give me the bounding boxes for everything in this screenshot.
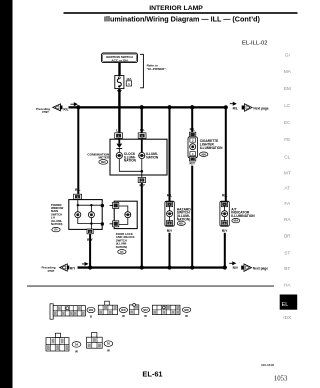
svg-text:R/L: R/L — [190, 127, 195, 131]
svg-text:D6: D6 — [75, 345, 79, 347]
svg-text:D5: D5 — [107, 344, 111, 346]
svg-text:R/L: R/L — [233, 106, 238, 110]
svg-text:RA: RA — [284, 217, 291, 223]
svg-text:R/L: R/L — [75, 188, 80, 192]
svg-text:Next page: Next page — [253, 266, 268, 270]
svg-text:M57: M57 — [143, 310, 148, 312]
svg-text:R/Y: R/Y — [233, 266, 239, 270]
svg-text:NATION): NATION) — [51, 222, 63, 226]
svg-text:R/Y: R/Y — [222, 229, 228, 233]
svg-text:MA: MA — [284, 69, 292, 75]
svg-text:CL: CL — [284, 154, 290, 160]
svg-text:page: page — [42, 110, 49, 114]
svg-text:R/L: R/L — [63, 107, 68, 111]
svg-text:R/L: R/L — [167, 194, 172, 198]
svg-text:ILLUMINATION: ILLUMINATION — [200, 146, 223, 150]
svg-text:BR: BR — [284, 234, 291, 240]
svg-text:EC: EC — [284, 120, 291, 126]
svg-text:IDX: IDX — [283, 315, 292, 321]
svg-text:R/L: R/L — [222, 194, 227, 198]
svg-text:M29: M29 — [89, 310, 94, 312]
svg-text:INTERIOR LAMP: INTERIOR LAMP — [149, 5, 203, 12]
svg-text:M56: M56 — [201, 154, 206, 156]
svg-text:W: W — [75, 349, 78, 353]
svg-text:Next page: Next page — [253, 106, 268, 110]
svg-text:W: W — [185, 314, 188, 318]
svg-text:R/Y: R/Y — [167, 229, 173, 233]
svg-text:NATION: NATION — [124, 159, 137, 163]
svg-text:ILLUMINATION: ILLUMINATION — [231, 214, 255, 218]
svg-text:10A: 10A — [126, 77, 132, 81]
svg-text:R/Y: R/Y — [190, 161, 196, 165]
svg-text:ACC or ON: ACC or ON — [111, 59, 128, 63]
svg-text:B: B — [90, 315, 93, 319]
svg-text:M45: M45 — [121, 309, 126, 312]
svg-text:M51: M51 — [179, 223, 184, 225]
svg-text:LC: LC — [284, 103, 291, 109]
svg-text:FE: FE — [284, 137, 290, 143]
svg-text:ST: ST — [284, 250, 290, 256]
svg-text:1053: 1053 — [274, 375, 288, 382]
svg-text:EL-61: EL-61 — [142, 370, 162, 379]
svg-text:EL-ILL-02: EL-ILL-02 — [242, 41, 267, 47]
svg-text:GI: GI — [285, 53, 290, 59]
svg-text:BT: BT — [284, 266, 290, 272]
svg-text:W: W — [122, 314, 125, 318]
svg-text:NATION): NATION) — [116, 245, 128, 249]
svg-text:1: 1 — [128, 82, 130, 86]
svg-text:EL: EL — [282, 302, 289, 308]
svg-text:HA: HA — [284, 283, 291, 289]
svg-text:L: L — [116, 128, 118, 132]
svg-text:R/Y: R/Y — [70, 266, 76, 270]
svg-text:M29: M29 — [101, 162, 106, 164]
svg-text:Illumination/Wiring Diagram —: Illumination/Wiring Diagram — ILL — (Con… — [104, 14, 261, 23]
svg-text:“EL-POWER”.: “EL-POWER”. — [147, 67, 167, 71]
svg-text:page: page — [48, 269, 55, 273]
svg-text:M54: M54 — [234, 220, 239, 223]
svg-text:EM: EM — [284, 86, 291, 92]
svg-text:NATION: NATION — [146, 155, 159, 159]
svg-text:MT: MT — [284, 171, 291, 177]
svg-text:M65: M65 — [184, 310, 189, 312]
svg-text:FA: FA — [284, 201, 291, 207]
svg-text:AT: AT — [284, 186, 290, 192]
svg-text:METER: METER — [98, 156, 110, 160]
svg-text:W: W — [107, 348, 110, 352]
svg-text:AEL181D: AEL181D — [261, 363, 275, 367]
svg-text:W: W — [144, 314, 147, 318]
svg-text:P/L: P/L — [140, 128, 145, 132]
svg-text:NATION): NATION) — [177, 217, 191, 221]
